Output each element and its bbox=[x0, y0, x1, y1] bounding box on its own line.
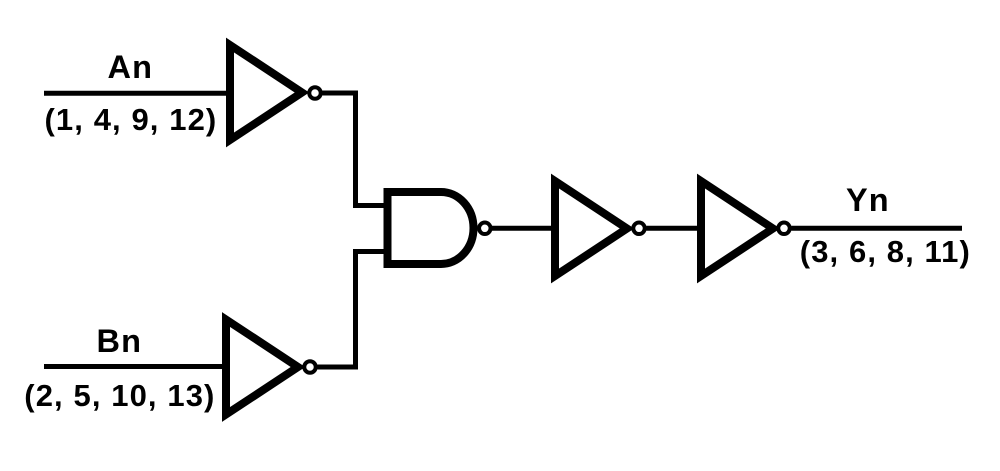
nand gate U3 bbox=[388, 192, 474, 264]
svg-text:Bn: Bn bbox=[97, 323, 143, 359]
wire Yn output bbox=[792, 226, 963, 231]
inverter U1 bbox=[230, 45, 302, 140]
bubble U3 bbox=[479, 223, 491, 235]
wire U2 output to NAND bottom input bbox=[318, 252, 388, 368]
wire U1 output to NAND top input bbox=[323, 93, 388, 206]
svg-text:(3, 6, 8, 11): (3, 6, 8, 11) bbox=[800, 234, 971, 269]
bubble U1 bbox=[309, 87, 321, 99]
inverter U4 bbox=[555, 181, 627, 276]
svg-text:An: An bbox=[108, 49, 154, 85]
wire Bn input bbox=[44, 364, 228, 369]
bubble U5 bbox=[778, 223, 790, 235]
inverter U2 bbox=[226, 320, 298, 415]
bubble U2 bbox=[304, 361, 316, 373]
wire An input bbox=[44, 91, 232, 96]
bubble U4 bbox=[633, 223, 645, 235]
svg-text:(2, 5, 10, 13): (2, 5, 10, 13) bbox=[24, 378, 215, 413]
wire U4 to U5 bbox=[647, 226, 704, 231]
svg-text:Yn: Yn bbox=[846, 182, 890, 218]
svg-text:(1, 4, 9, 12): (1, 4, 9, 12) bbox=[45, 102, 218, 137]
wire U3 to U4 bbox=[492, 226, 557, 231]
inverter U5 bbox=[701, 181, 773, 276]
